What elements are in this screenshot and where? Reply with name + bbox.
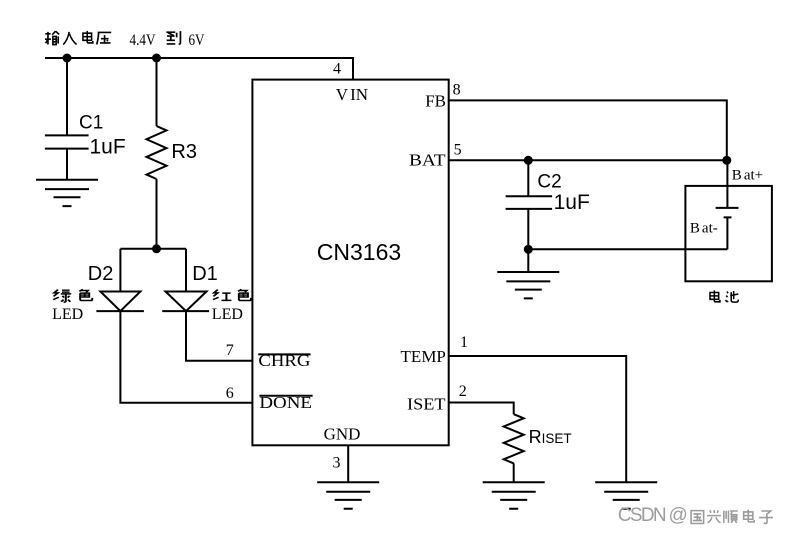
svg-text:Bat+: Bat+ bbox=[732, 168, 763, 184]
svg-text:C2: C2 bbox=[537, 171, 561, 192]
svg-text:C1: C1 bbox=[79, 113, 103, 134]
svg-text:ISET: ISET bbox=[407, 395, 446, 414]
svg-text:5: 5 bbox=[454, 142, 462, 159]
svg-text:7: 7 bbox=[226, 342, 234, 359]
svg-text:CSDN @: CSDN @ bbox=[618, 505, 688, 526]
svg-text:R3: R3 bbox=[171, 141, 197, 163]
svg-text:LED: LED bbox=[52, 306, 83, 323]
svg-text:2: 2 bbox=[459, 383, 467, 400]
svg-text:FB: FB bbox=[425, 91, 446, 110]
svg-text:BAT: BAT bbox=[409, 151, 446, 170]
svg-text:1uF: 1uF bbox=[90, 136, 126, 159]
svg-text:D2: D2 bbox=[88, 263, 114, 285]
svg-text:3: 3 bbox=[333, 455, 341, 472]
svg-text:LED: LED bbox=[212, 306, 243, 323]
svg-text:CN3163: CN3163 bbox=[317, 239, 401, 265]
svg-text:4: 4 bbox=[333, 61, 341, 78]
svg-text:8: 8 bbox=[453, 82, 461, 99]
svg-text:1uF: 1uF bbox=[554, 191, 590, 214]
svg-text:D1: D1 bbox=[192, 263, 218, 285]
svg-text:6V: 6V bbox=[189, 32, 205, 49]
svg-text:VIN: VIN bbox=[336, 85, 368, 104]
svg-text:4.4V: 4.4V bbox=[130, 32, 156, 49]
svg-text:TEMP: TEMP bbox=[401, 347, 446, 366]
svg-text:GND: GND bbox=[324, 425, 361, 444]
svg-text:1: 1 bbox=[460, 334, 468, 351]
svg-text:Bat-: Bat- bbox=[690, 221, 718, 237]
svg-text:6: 6 bbox=[226, 385, 234, 402]
